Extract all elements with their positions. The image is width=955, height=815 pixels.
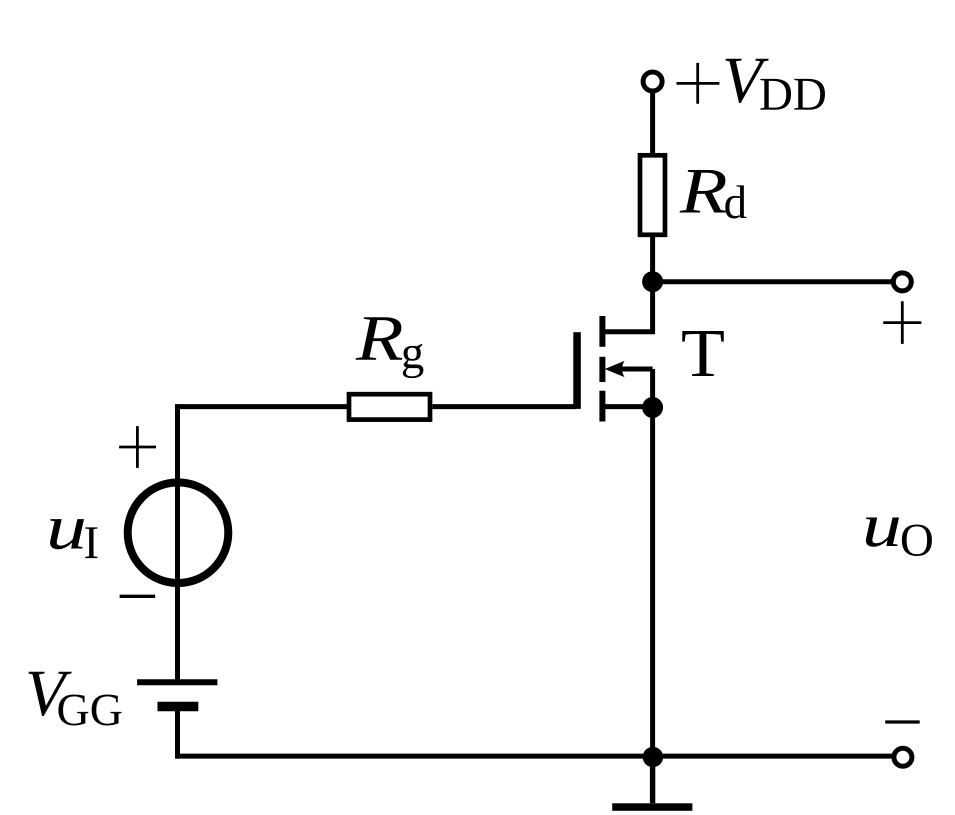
gate bar	[573, 332, 581, 409]
label Rg	[356, 317, 424, 378]
wire left to Rg	[178, 404, 350, 409]
transistor T (NMOS)	[573, 316, 652, 422]
label uO	[866, 518, 932, 557]
node C (ground junction)	[643, 747, 663, 767]
battery long plate	[137, 679, 217, 685]
wire source lead	[605, 404, 653, 409]
wire bulk to source node	[650, 369, 655, 407]
battery short plate	[158, 702, 199, 712]
wire gate lead (Rg right to gate)	[432, 404, 576, 409]
label - (output)	[885, 720, 920, 723]
resistor Rd	[640, 155, 665, 235]
label VGG	[28, 672, 121, 726]
wire source to bottom rail	[650, 408, 655, 757]
wire node A to output + terminal	[653, 279, 894, 284]
bulk arrow	[605, 361, 653, 377]
channel bar bottom (source)	[599, 391, 605, 422]
terminal output +	[893, 273, 911, 291]
channel bar top (drain)	[599, 316, 605, 347]
node B (source junction)	[642, 397, 663, 418]
wire drain lead	[600, 282, 653, 332]
wire Rd to node A	[650, 237, 655, 282]
ground	[612, 757, 692, 811]
battery VGG	[137, 682, 217, 706]
terminal output -	[894, 748, 912, 766]
label + (output)	[883, 301, 921, 344]
label +VDD	[677, 59, 826, 110]
wire battery to bottom rail	[175, 707, 180, 759]
label T	[682, 331, 723, 376]
label uI	[50, 519, 97, 558]
voltage source uI	[128, 482, 229, 583]
wire bottom rail	[175, 754, 894, 759]
channel bar middle (bulk)	[599, 357, 605, 382]
label - (uI)	[120, 595, 156, 598]
wire VDD to Rd	[650, 91, 655, 155]
label Rd	[680, 170, 747, 219]
terminal +VDD	[643, 72, 662, 91]
resistor Rg	[349, 394, 430, 419]
node A (drain junction)	[642, 271, 663, 292]
wire left vertical (through source uI)	[175, 404, 180, 682]
label + (uI)	[119, 426, 156, 468]
